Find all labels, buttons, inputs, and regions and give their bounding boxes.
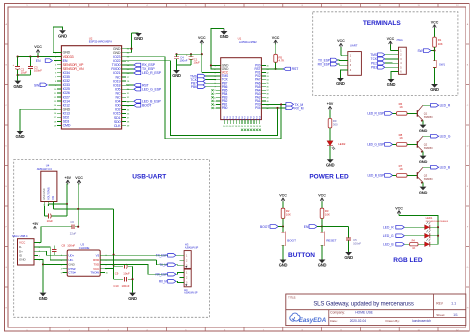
net label TX_ESP (U2 RXD0) [126, 67, 155, 71]
svg-text:GND: GND [19, 258, 27, 262]
power flag VCC (rgb led) [395, 206, 439, 244]
connector H4 AJ541WV-3P [179, 269, 197, 295]
capacitor C5b 10uF (U4) [45, 204, 67, 223]
ground (C9/C10) [128, 266, 137, 301]
svg-text:Micro USB 4: Micro USB 4 [12, 234, 28, 238]
svg-text:100nF: 100nF [67, 244, 75, 248]
svg-text:GND: GND [326, 163, 335, 168]
net label RX_ESP (U2 TXD0) [126, 63, 156, 67]
svg-text:C6: C6 [70, 220, 74, 224]
capacitor C4 100nF [174, 54, 188, 65]
transistor Q3 SS8050 [417, 167, 433, 184]
svg-text:VCC: VCC [387, 37, 395, 41]
svg-text:LED_B: LED_B [383, 242, 394, 246]
svg-text:SS8050: SS8050 [424, 147, 434, 150]
svg-text:SS8050: SS8050 [424, 116, 434, 119]
resistor R2 10K [281, 208, 291, 226]
svg-text:GND: GND [279, 263, 288, 268]
LED LED2 (power) [327, 141, 346, 160]
net flag TX_M (U1) [266, 103, 304, 107]
svg-text:TNOW: TNOW [90, 271, 99, 275]
net flag PB3 (JTAG) [371, 66, 392, 70]
svg-text:kondrusevich: kondrusevich [412, 319, 431, 323]
svg-text:BOOT: BOOT [260, 225, 269, 229]
svg-text:GND: GND [39, 296, 48, 301]
ground (C2/C3) [13, 74, 30, 89]
IC U2 ESP32-WROVER-I [54, 36, 130, 129]
net flag LED_G_ESP [367, 143, 396, 147]
pushbutton RESET [320, 227, 336, 260]
net flag PB6 (U1) [191, 85, 216, 89]
svg-text:LED_G_ESP: LED_G_ESP [142, 87, 162, 91]
connector P1 UART [341, 44, 361, 76]
svg-text:AJ541WV-3P: AJ541WV-3P [184, 292, 198, 295]
svg-text:Date:: Date: [330, 319, 338, 323]
svg-text:C10: C10 [113, 284, 119, 288]
resistor R9 300 [328, 119, 338, 141]
wire usb D- to U3 UD- [38, 247, 62, 260]
power flag +5V (U4) [65, 176, 72, 204]
connector USB1 Micro USB 4 [12, 234, 41, 265]
power flag +5V (power led) [327, 102, 334, 119]
svg-text:VCC: VCC [337, 39, 345, 43]
svg-text:RXD: RXD [93, 258, 100, 262]
net flag PB7 (U1) [191, 81, 216, 85]
net flag SW [34, 83, 57, 87]
svg-text:10K: 10K [325, 213, 330, 217]
net flag LED_B_ESP [368, 174, 397, 178]
transistor Q1 SS8050 [417, 105, 433, 122]
svg-text:SLS Gateway, updated by mercen: SLS Gateway, updated by mercenaruss [313, 301, 414, 307]
capacitor C9 10uF [114, 264, 133, 276]
svg-text:Sheet:: Sheet: [436, 313, 445, 317]
svg-text:VCC: VCC [272, 36, 280, 40]
svg-text:VCC: VCC [279, 194, 287, 198]
svg-text:POWER LED: POWER LED [309, 173, 349, 180]
svg-text:UART: UART [350, 44, 358, 48]
svg-text:GND: GND [419, 159, 428, 164]
svg-text:LED_G: LED_G [383, 234, 394, 238]
svg-text:EN: EN [36, 59, 41, 63]
svg-text:V3: V3 [96, 254, 100, 258]
wire U4 VOUT to +5V rail [49, 203, 68, 206]
ground (C4/C1) [172, 65, 191, 78]
switch SW1 [433, 51, 446, 84]
EasyEDA logo [290, 313, 327, 324]
svg-text:SW1: SW1 [439, 62, 446, 66]
svg-text:VCC: VCC [75, 176, 83, 180]
svg-text:GND: GND [220, 34, 229, 39]
svg-text:CMD: CMD [63, 124, 71, 128]
wire usb D+ to U3 UD+ [38, 251, 62, 255]
ground (JTAG) [387, 72, 396, 88]
svg-text:GND: GND [13, 84, 22, 89]
svg-text:LED_R_ESP: LED_R_ESP [367, 112, 384, 116]
capacitor C8 100nF [52, 244, 76, 256]
svg-text:PB3: PB3 [371, 66, 377, 70]
svg-text:2020-02-04: 2020-02-04 [350, 319, 367, 323]
ground (U2 top-left, pin1 GND) [53, 27, 67, 53]
svg-text:LED_B: LED_B [440, 166, 451, 170]
ground (Q2) [419, 151, 428, 163]
svg-text:BUTTON: BUTTON [288, 252, 315, 259]
LED LED_B diode (LED1) [404, 238, 438, 250]
regulator U4 AMS1117-3.3 [37, 164, 57, 207]
net flag TCK (JTAG) [371, 57, 393, 61]
svg-text:RX_ESP: RX_ESP [318, 62, 331, 66]
net flag LED_R (rgb) [383, 225, 404, 229]
net label RST (U2 IO18) [126, 83, 149, 87]
svg-text:C8: C8 [62, 244, 66, 248]
ground (SW1) [430, 84, 439, 92]
wire VDD33 rail [17, 56, 57, 58]
section box USB-UART [14, 160, 210, 318]
net flag LED_R_ESP [367, 112, 396, 116]
net flag TX_ESP (UART) [318, 58, 341, 62]
ground (Q1) [419, 120, 428, 132]
svg-text:RGB LED: RGB LED [393, 257, 423, 264]
svg-text:10uF: 10uF [193, 60, 200, 64]
svg-text:VCC: VCC [198, 36, 206, 40]
capacitor C2 10uF [13, 57, 28, 76]
net flag SW (SW1) [417, 49, 435, 53]
section box TERMINALS [313, 12, 458, 96]
ground (U1 top) [210, 29, 229, 69]
ground (Q3) [419, 182, 428, 194]
net flag PE2 (JTAG) [371, 61, 392, 65]
net flag LED_B [423, 165, 451, 169]
pushbutton BOOT [281, 227, 296, 260]
title block [286, 294, 466, 326]
svg-text:100nF: 100nF [34, 69, 42, 73]
svg-text:GND: GND [336, 81, 345, 86]
svg-text:AMS1117-3.3: AMS1117-3.3 [37, 167, 53, 171]
svg-text:G: G [5, 267, 7, 269]
svg-text:TX_M: TX_M [159, 263, 167, 267]
ground (RESET button) [318, 260, 327, 268]
svg-text:ESP32-WROVER-I: ESP32-WROVER-I [89, 39, 113, 43]
wire U2 IO22 to U1 RX_M (inner loop) [126, 61, 277, 136]
svg-text:SW: SW [34, 83, 40, 87]
svg-text:TERMINALS: TERMINALS [363, 20, 402, 27]
connector H3 AJ541WV-3P [179, 242, 198, 268]
net flag RX_ESP (usb-uart) [105, 264, 179, 276]
svg-text:USB-UART: USB-UART [132, 174, 166, 181]
svg-text:P04: P04 [255, 106, 261, 110]
resistor R5 4.7K with VCC [272, 36, 285, 70]
net flag RX_M (U1) [266, 106, 304, 110]
power flag VCC (U2 VDD33) [34, 45, 42, 56]
resistor R3 10K [320, 208, 330, 226]
svg-text:LED1: LED1 [426, 216, 433, 220]
net flag LED_B (rgb) [383, 242, 404, 246]
svg-text:UD+: UD+ [68, 254, 74, 258]
wire U2 IO23 to U1 TX_M (outer loop) [126, 57, 281, 139]
power flag VCC (U1) [198, 36, 216, 73]
net flag LED_G [423, 134, 451, 138]
net flag RX_M (usb-uart) [159, 280, 180, 284]
svg-text:10uF: 10uF [123, 272, 130, 276]
svg-text:GND: GND [128, 296, 137, 301]
transistor Q2 SS8050 [417, 136, 433, 153]
svg-text:GND: GND [419, 190, 428, 195]
svg-text:LED2: LED2 [338, 142, 346, 146]
svg-text:LED_R: LED_R [440, 104, 451, 108]
svg-text:VCC: VCC [318, 194, 326, 198]
IC U3 CH340E [61, 243, 109, 277]
svg-text:10uF: 10uF [21, 71, 28, 75]
net flag TX_M (usb-uart) [157, 260, 180, 267]
wire U4 VIN to VCC rail [54, 206, 114, 210]
svg-text:TITLE:: TITLE: [288, 295, 296, 299]
net flag BOOT (button) [260, 225, 284, 229]
capacitor C5 100nF (reset) [346, 238, 361, 252]
svg-text:LED_B_ESP: LED_B_ESP [368, 174, 385, 178]
svg-text:JTAG: JTAG [396, 38, 403, 42]
svg-text:10uF: 10uF [47, 219, 54, 223]
svg-text:GND: GND [318, 263, 327, 268]
svg-text:UD-: UD- [68, 258, 73, 262]
svg-text:PB6: PB6 [191, 85, 197, 89]
svg-text:Drawn By:: Drawn By: [386, 319, 400, 323]
svg-text:RX_M: RX_M [294, 106, 303, 110]
capacitor C6 22uF [41, 209, 79, 236]
resistor R8 1K [396, 133, 417, 146]
resistor R7 1K [396, 164, 417, 177]
power flag +5V (usb) [32, 222, 41, 242]
svg-text:CTS#: CTS# [68, 271, 76, 275]
power flag VCC (U4 out) [75, 176, 83, 209]
svg-text:LED_R: LED_R [383, 225, 394, 229]
svg-text:PB0: PB0 [222, 106, 228, 110]
svg-text:EasyEDA: EasyEDA [299, 317, 327, 324]
svg-text:SS8050: SS8050 [424, 178, 434, 181]
svg-text:1.1: 1.1 [451, 302, 456, 306]
svg-text:GND: GND [172, 73, 181, 78]
svg-text:GND: GND [419, 128, 428, 133]
svg-text:+5V: +5V [65, 176, 72, 180]
ground (U2 top-right GND pins) [126, 33, 143, 53]
svg-text:+5V: +5V [327, 102, 334, 106]
svg-text:1K: 1K [412, 247, 415, 250]
resistor R1 10K with VCC (SW1) [431, 20, 443, 50]
svg-text:1/1: 1/1 [453, 313, 458, 317]
power flag VCC (JTAG) [387, 37, 395, 51]
svg-text:RX_M: RX_M [159, 280, 168, 284]
svg-text:VCC: VCC [34, 45, 42, 49]
ground (power led) [326, 159, 335, 167]
svg-text:REV: REV [436, 301, 443, 305]
resistor R6 1K [396, 102, 417, 115]
svg-text:25C5050VGBOWR003: 25C5050VGBOWR003 [426, 221, 449, 223]
ground (C5) [344, 252, 353, 260]
svg-text:4.7K: 4.7K [279, 59, 285, 63]
svg-text:GND: GND [58, 33, 67, 38]
svg-text:1K: 1K [399, 105, 403, 109]
wire VCC to C4/C1 [175, 53, 201, 55]
connector J1 JTAG [392, 38, 406, 74]
ground (UART) [336, 70, 345, 86]
net label BOOT (U2 IO0) [126, 104, 152, 108]
svg-text:BOOT: BOOT [287, 239, 296, 243]
net label LED_B_ESP (U2 IO4) [126, 100, 161, 104]
svg-text:10K: 10K [438, 42, 443, 46]
svg-text:RESET: RESET [326, 239, 336, 243]
wire VCC rail down to U3 V3 [105, 209, 115, 269]
net label LED_G_ESP (U2 IO5) [126, 87, 162, 91]
svg-text:CLK: CLK [114, 124, 121, 128]
svg-text:GND: GND [430, 87, 439, 92]
ground (U2 bottom GND pin) [16, 109, 57, 139]
svg-text:Company:: Company: [330, 311, 345, 315]
svg-text:VCC: VCC [19, 241, 26, 245]
svg-text:LED_G: LED_G [440, 135, 451, 139]
net flag RX_ESP (UART) [318, 62, 341, 66]
capacitor C1 10uF [186, 54, 200, 65]
svg-text:VOUT(TAB): VOUT(TAB) [47, 187, 50, 200]
net flag TX_ESP (usb-uart) [114, 254, 180, 258]
svg-text:cc2530-cc2592: cc2530-cc2592 [239, 40, 257, 44]
svg-text:GND: GND [344, 255, 353, 260]
power flag VCC (BOOT button) [279, 194, 287, 209]
svg-text:10K: 10K [286, 213, 291, 217]
svg-text:BOOT: BOOT [142, 104, 152, 108]
svg-text:1K: 1K [399, 167, 403, 171]
svg-text:C9: C9 [115, 272, 119, 276]
net flag EN (button) [304, 225, 323, 229]
svg-text:VCC: VCC [431, 20, 439, 24]
svg-text:SW: SW [417, 49, 423, 53]
ground (BOOT button) [279, 260, 288, 268]
svg-text:AJ541WV-3P: AJ541WV-3P [185, 246, 199, 249]
svg-text:100nF: 100nF [180, 58, 188, 62]
power flag VCC (RESET button) [318, 194, 326, 209]
wire U3 RXD to H3 [105, 259, 157, 261]
wire U3 GND [43, 263, 63, 265]
ground (usb shield) [38, 260, 47, 301]
LED LED_R diode (LED1) [404, 221, 438, 229]
svg-text:U4: U4 [46, 164, 50, 168]
svg-text:G: G [467, 267, 469, 269]
net label LED_R_ESP (U2 IO21) [126, 71, 161, 75]
IC U1 cc2530-cc2592 [211, 36, 269, 131]
svg-text:300: 300 [333, 122, 338, 126]
power flag VCC (UART) [337, 39, 345, 56]
net flag TCK (U1) [190, 78, 216, 82]
net flag TMS (U1) [190, 74, 216, 78]
net flag RST (U1) [266, 67, 299, 71]
svg-text:100nF: 100nF [122, 284, 130, 288]
svg-text:VCC: VCC [395, 206, 403, 210]
LED LED_G diode (LED1) [404, 230, 438, 238]
svg-text:GND: GND [134, 36, 143, 41]
svg-text:LED_G_ESP: LED_G_ESP [367, 143, 384, 147]
svg-text:EN: EN [304, 225, 309, 229]
svg-text:22uF: 22uF [70, 232, 77, 236]
capacitor C10 100nF [113, 269, 132, 288]
net flag LED_R [423, 103, 451, 107]
net flag EN [36, 59, 57, 63]
svg-text:GND: GND [16, 134, 25, 139]
svg-text:RST: RST [292, 67, 300, 71]
svg-text:GND GND: GND GND [43, 188, 46, 200]
wire EN junction to C5 [322, 227, 348, 238]
wire usb VCC [38, 242, 41, 244]
svg-text:VIN: VIN [52, 196, 55, 200]
capacitor C3 100nF [28, 57, 42, 76]
svg-text:1K: 1K [399, 136, 403, 140]
svg-text:GND: GND [387, 82, 396, 87]
LED LED1 RGB module [426, 216, 449, 223]
svg-text:100nF: 100nF [353, 242, 361, 246]
net flag LED_G (rgb) [383, 234, 405, 238]
svg-text:RX_ESP: RX_ESP [156, 273, 167, 277]
svg-text:LED_R_ESP: LED_R_ESP [142, 71, 162, 75]
net flag TMS (JTAG) [370, 53, 392, 57]
svg-text:HOME USE: HOME USE [355, 311, 373, 315]
svg-text:TX_ESP: TX_ESP [156, 254, 167, 258]
svg-text:+5V: +5V [32, 222, 39, 226]
